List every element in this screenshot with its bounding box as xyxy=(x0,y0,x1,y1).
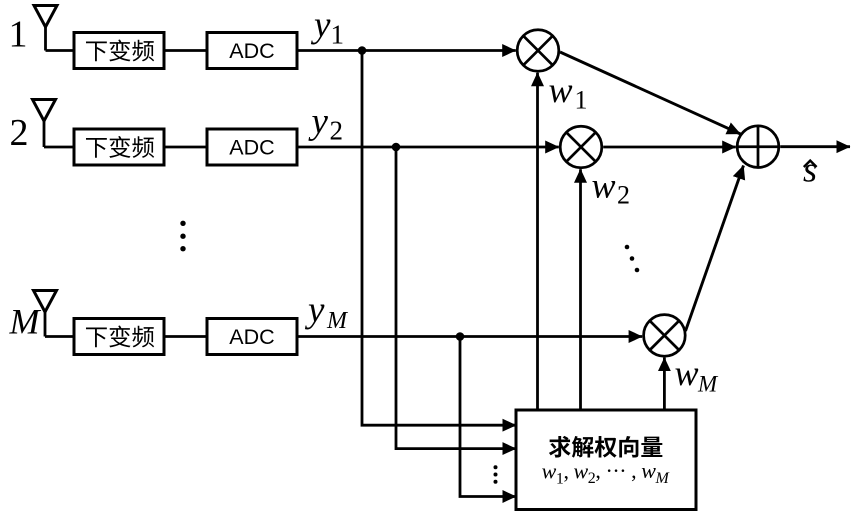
svg-text:y: y xyxy=(310,5,331,46)
svg-text:1: 1 xyxy=(575,86,588,115)
svg-text:ADC: ADC xyxy=(229,136,274,160)
svg-text:2: 2 xyxy=(617,181,630,210)
svg-text:y: y xyxy=(308,101,329,142)
svg-text:w: w xyxy=(549,70,573,110)
svg-text:1: 1 xyxy=(9,14,28,56)
svg-text:w: w xyxy=(675,353,699,393)
svg-text:y: y xyxy=(304,290,325,331)
svg-text:2: 2 xyxy=(10,112,29,154)
svg-text:M: M xyxy=(326,308,349,334)
svg-text:2: 2 xyxy=(330,116,344,146)
svg-text:ADC: ADC xyxy=(229,39,274,63)
svg-text:ADC: ADC xyxy=(229,325,274,349)
svg-text:M: M xyxy=(697,372,719,397)
svg-text:w: w xyxy=(592,166,616,206)
svg-text:s: s xyxy=(803,150,817,190)
svg-text:M: M xyxy=(9,302,42,342)
svg-text:1: 1 xyxy=(331,20,345,50)
